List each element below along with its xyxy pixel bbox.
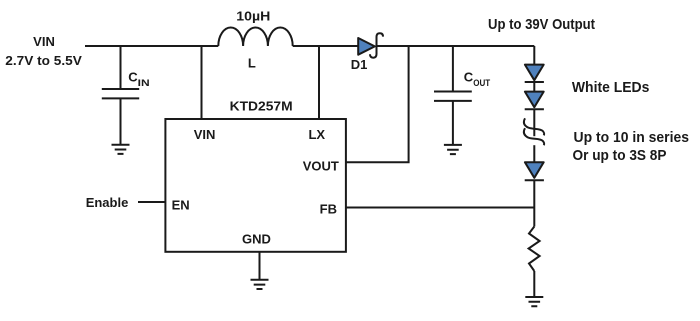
svg-text:Or up to 3S 8P: Or up to 3S 8P [573, 147, 667, 164]
ground R1 [525, 297, 543, 306]
svg-text:FB: FB [320, 202, 337, 217]
wire top rail left segment [85, 45, 218, 47]
wire VOUT branch [346, 46, 409, 162]
svg-text:COUT: COUT [464, 69, 491, 89]
wire CIN branch upper [120, 46, 122, 89]
wire VIN pin branch [201, 46, 203, 119]
diode D1 triangle [358, 38, 375, 55]
wire break to LED3 [533, 145, 535, 162]
svg-text:Up to 39V Output: Up to 39V Output [488, 16, 595, 33]
inductor L 10uH [218, 27, 292, 46]
svg-text:CIN: CIN [128, 69, 150, 89]
svg-text:Up to 10 in series: Up to 10 in series [574, 129, 690, 146]
wire LX pin branch [318, 46, 320, 119]
resistor R1 zigzag [529, 227, 540, 272]
svg-text:White LEDs: White LEDs [572, 79, 650, 96]
svg-text:EN: EN [172, 198, 190, 213]
ground IC GND [251, 280, 269, 289]
svg-text:GND: GND [242, 232, 271, 247]
wire top rail middle segment [293, 45, 359, 47]
capacitor COUT plates [434, 92, 472, 101]
wire resistor to ground [533, 271, 535, 297]
ground CIN [112, 145, 130, 154]
svg-text:2.7V to 5.5V: 2.7V to 5.5V [5, 53, 82, 68]
diode D1 schottky cathode [370, 33, 383, 58]
svg-text:VIN: VIN [194, 127, 216, 142]
LED D3 triangle [525, 92, 544, 108]
wire FB branch [346, 207, 534, 209]
LED D4 cathode bar [525, 179, 544, 181]
svg-text:KTD257M: KTD257M [230, 99, 293, 114]
break symbol curve lower [524, 128, 544, 145]
wire LED2 to break [533, 109, 535, 136]
svg-text:VIN: VIN [33, 34, 55, 49]
wire top rail right segment [378, 45, 535, 47]
capacitor CIN plates [102, 89, 139, 98]
wire LED3 to resistor [533, 180, 535, 226]
svg-text:VOUT: VOUT [303, 159, 339, 174]
svg-text:LX: LX [308, 127, 325, 142]
wire COUT branch lower [452, 101, 454, 145]
LED D3 cathode bar [525, 108, 544, 110]
ground COUT [444, 145, 462, 154]
svg-text:10µH: 10µH [236, 9, 270, 24]
wire EN enable [138, 201, 165, 203]
wire LED1 to LED2 [533, 82, 535, 91]
svg-text:D1: D1 [351, 57, 368, 72]
IC U1 KTD257M box [165, 119, 346, 252]
wire CIN branch lower [120, 98, 122, 144]
wire COUT branch upper [452, 46, 454, 92]
LED D2 cathode bar [525, 81, 544, 83]
svg-text:Enable: Enable [86, 195, 129, 210]
break symbol curve upper [524, 118, 544, 135]
LED D2 triangle [525, 65, 544, 178]
svg-text:L: L [248, 56, 256, 71]
wire LED branch top corner [533, 46, 535, 64]
LED D4 triangle [525, 162, 544, 178]
wire GND pin branch [259, 252, 261, 280]
